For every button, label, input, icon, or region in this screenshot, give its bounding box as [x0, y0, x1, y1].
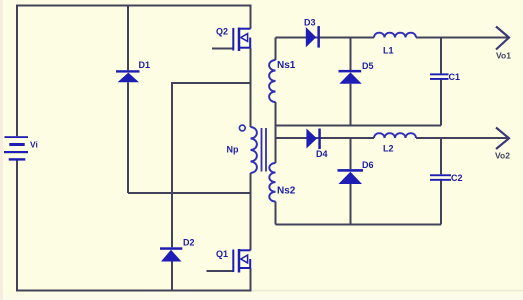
svg-text:Np: Np — [227, 145, 239, 155]
svg-text:Ns1: Ns1 — [277, 60, 296, 71]
svg-text:D2: D2 — [183, 238, 195, 248]
svg-text:Q2: Q2 — [216, 27, 228, 37]
svg-text:D5: D5 — [362, 61, 374, 71]
svg-text:L2: L2 — [383, 144, 394, 154]
svg-text:L1: L1 — [383, 46, 394, 56]
svg-text:D3: D3 — [304, 18, 316, 28]
svg-text:D6: D6 — [362, 160, 374, 170]
svg-text:Vo1: Vo1 — [496, 51, 511, 61]
svg-text:Vi: Vi — [30, 140, 38, 150]
svg-text:D1: D1 — [139, 60, 151, 70]
svg-text:D4: D4 — [316, 149, 328, 159]
svg-text:Vo2: Vo2 — [495, 151, 510, 161]
svg-text:Ns2: Ns2 — [277, 186, 296, 197]
svg-text:C1: C1 — [449, 72, 461, 82]
svg-text:Q1: Q1 — [216, 249, 228, 259]
svg-text:C2: C2 — [451, 173, 463, 183]
